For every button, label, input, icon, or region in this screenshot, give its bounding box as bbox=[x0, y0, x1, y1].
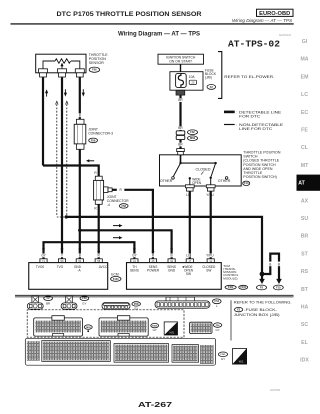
svg-text:H.S.: H.S. bbox=[239, 360, 244, 363]
connector view A1 (F2 bolt type) bbox=[32, 296, 39, 303]
svg-text:SU: SU bbox=[301, 216, 308, 222]
ignition switch box bbox=[158, 54, 204, 64]
wire label B left leg bbox=[268, 262, 272, 267]
svg-text:EL: EL bbox=[301, 340, 308, 346]
svg-text:EURO-OBD: EURO-OBD bbox=[259, 11, 290, 17]
TPS terminal 3 bbox=[75, 69, 84, 73]
svg-text:F402: F402 bbox=[228, 286, 234, 289]
svg-text:POSITION SWITCH): POSITION SWITCH) bbox=[243, 175, 277, 179]
legend: detectable line for DTC bbox=[224, 111, 235, 114]
svg-text:GY: GY bbox=[153, 328, 157, 332]
node on ground drop bbox=[260, 272, 265, 277]
svg-text:ST: ST bbox=[301, 251, 308, 257]
svg-text:TVO: TVO bbox=[57, 265, 64, 269]
pin direction marks bbox=[42, 249, 45, 252]
ECM connector grid C5 bbox=[200, 345, 214, 364]
svg-text:CONNECTOR: CONNECTOR bbox=[107, 199, 129, 203]
svg-text:F58: F58 bbox=[121, 204, 126, 208]
fuse 10A symbol bbox=[176, 73, 187, 87]
svg-text:POWER: POWER bbox=[147, 269, 160, 273]
connector view box row B bbox=[27, 310, 184, 337]
page flag arrow left bbox=[259, 279, 265, 284]
arrow down on B wire bbox=[82, 89, 84, 93]
wire bridge to second flag bbox=[262, 254, 279, 280]
connector F403 bbox=[239, 285, 248, 289]
contact OTHER (right) bbox=[225, 177, 228, 180]
svg-text:DTC P1705 THROTTLE POSITION SE: DTC P1705 THROTTLE POSITION SENSOR bbox=[57, 11, 202, 18]
svg-text:F403: F403 bbox=[152, 324, 158, 327]
svg-text:IDX: IDX bbox=[300, 358, 309, 364]
svg-text:B: B bbox=[278, 262, 280, 266]
wire BR fuse to connector bbox=[179, 95, 181, 131]
fuse block bottom terminal bbox=[176, 90, 185, 95]
svg-text:GI: GI bbox=[302, 39, 308, 45]
svg-text:-4: -4 bbox=[107, 203, 110, 207]
ECM connector grid C2 bbox=[42, 341, 111, 362]
svg-text:GY: GY bbox=[216, 328, 220, 332]
ECM box bbox=[29, 263, 108, 290]
joint connector-3 bbox=[76, 119, 84, 124]
wire label B right leg bbox=[277, 262, 281, 267]
sidebar AT tab (active) bbox=[297, 175, 320, 191]
svg-text:CL: CL bbox=[301, 145, 309, 151]
svg-text:25: 25 bbox=[191, 81, 195, 85]
switch top terminal bbox=[177, 149, 185, 152]
svg-text:F101: F101 bbox=[221, 354, 227, 356]
svg-text:MODULE): MODULE) bbox=[223, 276, 237, 280]
wire BR connector to throttle position switch bbox=[179, 140, 181, 149]
svg-text:GY: GY bbox=[82, 302, 86, 306]
EURO-OBD badge bbox=[257, 9, 294, 16]
svg-text:LG: LG bbox=[186, 254, 191, 258]
pin terminal boxes bbox=[40, 259, 47, 263]
wire row1 - to page flags bbox=[66, 217, 262, 280]
dashed non-detectable branch right bbox=[66, 104, 68, 216]
svg-text:F54: F54 bbox=[215, 299, 220, 303]
svg-text:ON OR START: ON OR START bbox=[169, 59, 192, 63]
svg-text:SENSOR: SENSOR bbox=[89, 61, 105, 65]
divider line before notes bbox=[230, 300, 232, 340]
arrow right on row2 bbox=[113, 225, 119, 227]
legend: non-detectable line for DTC bbox=[224, 124, 235, 125]
wire Y - TPS terminal 2 down to ECM TVO bbox=[61, 77, 63, 259]
pin wire color labels bbox=[41, 254, 45, 258]
svg-text:BR: BR bbox=[178, 98, 183, 102]
svg-text:(J/B): (J/B) bbox=[205, 76, 212, 80]
svg-text:BR: BR bbox=[178, 126, 183, 130]
joint connector-4 side tap terminal bbox=[104, 187, 108, 193]
wire BR inside switch bbox=[180, 155, 182, 163]
wire color R (terminal 1) bbox=[41, 81, 45, 85]
svg-text:LC: LC bbox=[301, 92, 308, 98]
dashed hook joining junction bbox=[57, 216, 66, 218]
bracket around fuse block bbox=[218, 52, 222, 99]
svg-text:AT-267: AT-267 bbox=[138, 400, 172, 409]
connector F101 bbox=[111, 277, 121, 282]
page flag connector left bbox=[257, 285, 267, 290]
wire B - TPS terminal 3 down to joint connector-3 bbox=[79, 77, 81, 119]
svg-text:B: B bbox=[171, 254, 173, 258]
connector view B2 (TCM F403) bbox=[99, 318, 148, 336]
svg-text:F402: F402 bbox=[86, 326, 92, 329]
svg-text:HAT093: HAT093 bbox=[270, 388, 280, 392]
connector view A2 (F59 bolt type) bbox=[66, 296, 73, 303]
svg-text:EM: EM bbox=[301, 74, 309, 80]
svg-text:H.S.: H.S. bbox=[170, 332, 175, 335]
H.S. marker row B bbox=[164, 322, 177, 335]
connector F58 bbox=[119, 204, 128, 208]
svg-text:B: B bbox=[79, 254, 81, 258]
node: junction on B wire bbox=[78, 229, 81, 232]
fuse block outline bbox=[170, 72, 203, 91]
wire - resistor left end to terminal 1 bbox=[43, 61, 55, 69]
switch supply bus bbox=[181, 162, 216, 164]
TPS terminal 1 bbox=[39, 69, 48, 73]
svg-text:CONNECTOR-3: CONNECTOR-3 bbox=[88, 132, 113, 136]
wire row2 - B branch to TCM SENS GND bbox=[80, 230, 172, 258]
connector F402 bbox=[225, 285, 236, 289]
fuse block connector F2 bbox=[207, 85, 216, 90]
closed throttle position switch arm bbox=[211, 163, 216, 176]
TPS terminal 2 bbox=[58, 69, 67, 73]
wire ignition switch to fuse bbox=[180, 64, 182, 72]
node: junction of dashed branches bbox=[65, 215, 68, 218]
wire R horizontal jog bbox=[43, 166, 99, 177]
wire color B (terminal 3) bbox=[78, 81, 82, 85]
svg-text:REFER TO THE FOLLOWING.: REFER TO THE FOLLOWING. bbox=[234, 300, 292, 304]
svg-text::: : bbox=[236, 123, 237, 127]
switch bottom terminal Y/PU bbox=[206, 185, 215, 188]
svg-text:M66: M66 bbox=[190, 136, 196, 140]
svg-text:BR: BR bbox=[178, 143, 183, 147]
svg-text:-FUSE BLOCK-: -FUSE BLOCK- bbox=[244, 308, 277, 312]
wire LG - switch to TCM WIDE OPEN SW bbox=[189, 191, 191, 259]
ECM connector grid C1 bbox=[27, 341, 40, 361]
wire Y/PU - switch to TCM CLOSED SW bbox=[210, 191, 212, 259]
throttle position switch box bbox=[160, 155, 242, 186]
page flag arrow right bbox=[276, 279, 282, 284]
wire color Y (terminal 2) bbox=[60, 81, 64, 85]
wire B - joint connector-3 to ECM GND-A bbox=[79, 149, 81, 258]
svg-text:F32: F32 bbox=[190, 130, 195, 134]
connector view A4 (F14 strip) bbox=[166, 297, 195, 301]
svg-text:F403: F403 bbox=[240, 286, 246, 289]
svg-text:RS: RS bbox=[301, 269, 309, 275]
svg-text:JUNCTION BOX (J/B): JUNCTION BOX (J/B) bbox=[234, 313, 280, 317]
svg-text:LG: LG bbox=[186, 193, 191, 197]
wiper arrow of potentiometer bbox=[61, 64, 63, 69]
svg-text:EC: EC bbox=[301, 110, 308, 116]
resistor R (TPS potentiometer track) bbox=[55, 59, 71, 63]
separator double rule bbox=[15, 294, 294, 296]
wire R side branch to TCM SENS POWER bbox=[112, 189, 117, 191]
switch bottom terminal LG bbox=[185, 185, 194, 188]
svg-text:F14: F14 bbox=[244, 181, 249, 185]
joint connector-4 bbox=[95, 176, 102, 180]
svg-text:MT: MT bbox=[301, 163, 309, 169]
connector view box row C (ECM) bbox=[25, 338, 215, 365]
svg-text:HA: HA bbox=[301, 305, 309, 311]
svg-text:LINE FOR DTC: LINE FOR DTC bbox=[239, 127, 273, 131]
wide open throttle position switch arm bbox=[173, 163, 180, 176]
svg-text:Wiring Diagram — AT — TPS: Wiring Diagram — AT — TPS bbox=[232, 18, 292, 23]
contact WIDE OPEN bbox=[189, 177, 191, 179]
arrow down on Y wire bbox=[64, 89, 66, 93]
wire - resistor right end to terminal 3 bbox=[71, 61, 80, 69]
svg-text:SC: SC bbox=[301, 322, 308, 328]
svg-text:AX: AX bbox=[301, 198, 309, 204]
header rule bbox=[11, 23, 294, 24]
connector view B3 bbox=[190, 322, 213, 333]
connector ref oval row C bbox=[218, 352, 227, 357]
svg-text:BR: BR bbox=[46, 302, 50, 306]
svg-text:F58: F58 bbox=[134, 302, 139, 306]
svg-text:ECM: ECM bbox=[111, 272, 119, 276]
TCM box bbox=[127, 263, 222, 290]
svg-text:SENS: SENS bbox=[130, 269, 139, 273]
arrow right on row3 bbox=[113, 237, 119, 239]
svg-text:MA: MA bbox=[300, 57, 308, 63]
connector view A3 (F58 strip) bbox=[102, 302, 130, 309]
svg-text:AVCC: AVCC bbox=[99, 265, 108, 269]
arrow left on R jog bbox=[88, 160, 95, 162]
svg-text:F59: F59 bbox=[82, 296, 87, 300]
wire color B below joint connector-3 bbox=[78, 153, 82, 157]
svg-text:Y/PU: Y/PU bbox=[206, 193, 214, 197]
svg-text:F101: F101 bbox=[113, 277, 119, 281]
svg-text:10A: 10A bbox=[189, 75, 196, 79]
svg-text:CLOSED: CLOSED bbox=[196, 167, 212, 171]
svg-text:SW: SW bbox=[206, 269, 211, 273]
svg-text:AT: AT bbox=[298, 181, 305, 187]
connector F59 bbox=[89, 138, 98, 143]
page flag connector right bbox=[274, 285, 284, 290]
svg-text:GY: GY bbox=[221, 357, 225, 361]
connector view B1 (TCM F402) bbox=[34, 318, 83, 336]
svg-text:AT-TPS-02: AT-TPS-02 bbox=[228, 38, 280, 49]
svg-text:B: B bbox=[269, 262, 271, 266]
wire R below joint connector-4 to ECM AVCC bbox=[98, 204, 100, 258]
svg-text:SW: SW bbox=[186, 272, 191, 276]
arrow up on R wire bbox=[46, 92, 48, 96]
ECM connector grid C3 bbox=[114, 344, 169, 363]
svg-text:F26: F26 bbox=[92, 68, 97, 72]
svg-text:GND: GND bbox=[168, 269, 176, 273]
wire color B above joint connector-3 bbox=[78, 113, 82, 117]
wire row3 - GY ECM TVO0 to TCM TH SENS bbox=[44, 242, 135, 259]
inline connector F32/M66 bbox=[176, 131, 185, 135]
dashed non-detectable branch left bbox=[56, 104, 58, 216]
H.S. marker row C bbox=[233, 349, 247, 365]
svg-text:Y/PU: Y/PU bbox=[206, 254, 214, 258]
throttle position sensor box bbox=[36, 54, 86, 73]
svg-text:BR: BR bbox=[301, 234, 309, 240]
svg-text:Wiring Diagram — AT — TPS: Wiring Diagram — AT — TPS bbox=[118, 30, 200, 37]
svg-text:NJAT0131: NJAT0131 bbox=[279, 33, 292, 37]
ECM connector grid C4 bbox=[172, 345, 199, 363]
connector F14 bbox=[243, 181, 250, 185]
svg-text:F15: F15 bbox=[276, 285, 281, 289]
svg-text:FE: FE bbox=[301, 128, 308, 134]
svg-text::: : bbox=[236, 110, 237, 114]
svg-text:REFER TO EL-POWER.: REFER TO EL-POWER. bbox=[224, 75, 274, 79]
svg-text:B: B bbox=[79, 113, 81, 117]
svg-text:OTHER: OTHER bbox=[218, 179, 231, 183]
svg-text:BT: BT bbox=[301, 287, 309, 293]
svg-text:F59: F59 bbox=[91, 138, 96, 142]
connector F26 bbox=[89, 67, 99, 72]
svg-text:OTHER: OTHER bbox=[160, 179, 173, 183]
fuse number box 25 bbox=[189, 80, 196, 84]
svg-text:TVO0: TVO0 bbox=[36, 265, 45, 269]
svg-text:FOR DTC: FOR DTC bbox=[239, 115, 261, 119]
wire R - TPS terminal 1 down bbox=[42, 77, 44, 165]
